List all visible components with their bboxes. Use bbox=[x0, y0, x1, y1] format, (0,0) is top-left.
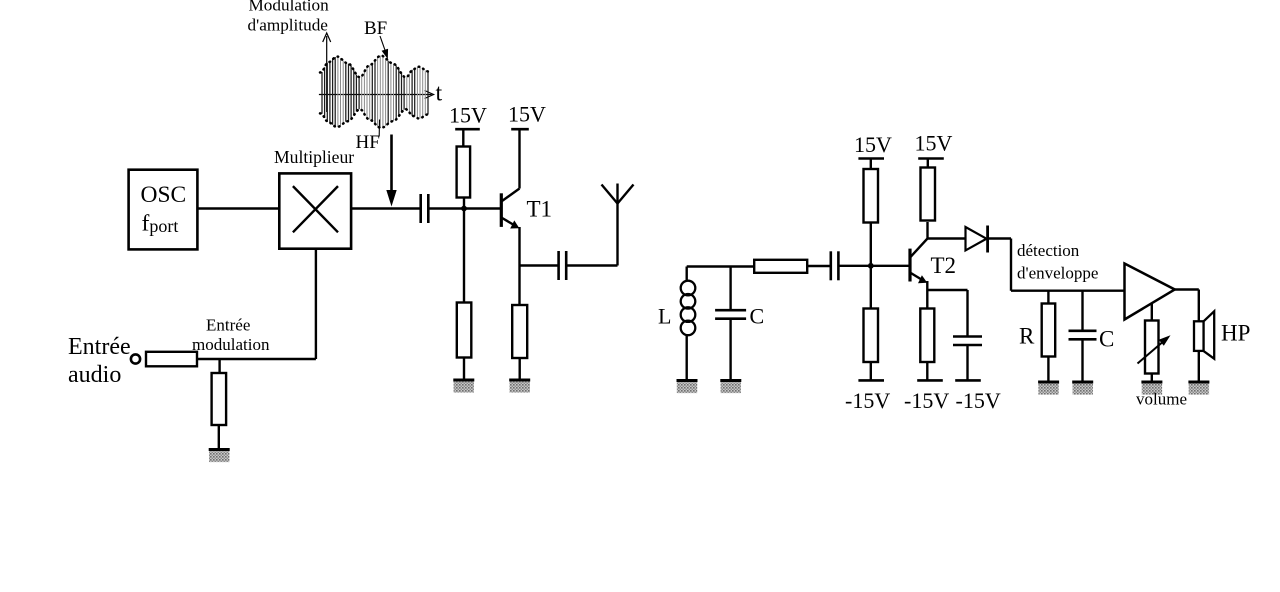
arrow from plot down to wire bbox=[386, 135, 396, 207]
wire input line bbox=[197, 358, 316, 360]
supply -15V T2 bias bbox=[858, 379, 884, 382]
svg-text:-15V: -15V bbox=[956, 388, 1001, 413]
svg-text:volume: volume bbox=[1136, 390, 1187, 409]
wire amp to volume pot bbox=[1151, 304, 1153, 321]
transistor T1 bbox=[501, 131, 519, 266]
wire cap to -15V bbox=[966, 346, 968, 381]
input terminal bbox=[131, 354, 140, 363]
capacitor C coupling T2 bbox=[831, 251, 839, 280]
node base T1 bbox=[461, 206, 467, 212]
resistor R detector bbox=[1042, 304, 1056, 357]
wire HP to ground bbox=[1198, 351, 1200, 382]
svg-text:d'amplitude: d'amplitude bbox=[248, 16, 329, 35]
svg-text:-15V: -15V bbox=[845, 388, 890, 413]
ground under R detector bbox=[1038, 382, 1059, 395]
resistor R shunt input bbox=[212, 373, 227, 425]
op-amp audio amplifier bbox=[1125, 264, 1175, 320]
resistor R series receiver bbox=[754, 260, 807, 273]
capacitor C antenna coupling bbox=[559, 251, 567, 280]
svg-text:15V: 15V bbox=[854, 132, 892, 157]
loudspeaker HP bbox=[1194, 311, 1214, 358]
block OSC fport bbox=[129, 170, 198, 250]
svg-text:15V: 15V bbox=[508, 102, 546, 127]
capacitor C detector bbox=[1069, 331, 1097, 340]
wire collector to diode bbox=[928, 237, 966, 239]
wire resistor to 15V bar bbox=[462, 129, 464, 146]
svg-text:audio: audio bbox=[68, 362, 121, 388]
svg-text:-15V: -15V bbox=[904, 388, 949, 413]
supply +15V T2 bias bbox=[858, 157, 884, 160]
wire emitter to cap bbox=[520, 264, 558, 266]
wire OSC to multiplier bbox=[197, 207, 279, 209]
svg-text:T2: T2 bbox=[931, 253, 957, 278]
wire pot to ground bbox=[1151, 374, 1153, 383]
wire emitter to bypass cap bbox=[927, 289, 967, 291]
resistor R bias T1 upper bbox=[457, 147, 471, 198]
wire cap to ground bbox=[729, 320, 731, 381]
supply -15V T2 emitter bbox=[917, 379, 943, 382]
wire to C bbox=[1081, 291, 1083, 331]
ground under input resistor bbox=[209, 450, 230, 463]
svg-text:15V: 15V bbox=[449, 103, 487, 128]
wire node to base bbox=[871, 265, 909, 267]
svg-text:L: L bbox=[658, 304, 671, 329]
transistor T2 bbox=[910, 222, 928, 309]
svg-text:C: C bbox=[750, 304, 765, 329]
potentiometer arrow bbox=[1138, 335, 1171, 363]
resistor R series input bbox=[146, 352, 197, 367]
antenna bbox=[602, 184, 634, 266]
envelope (dotted) lower bbox=[320, 109, 428, 128]
inductor L bbox=[681, 281, 696, 336]
wire coil to ground bbox=[686, 335, 688, 381]
ground under C detector bbox=[1072, 382, 1093, 395]
ground under bias resistor bbox=[453, 380, 474, 393]
wire resistor to ground bbox=[463, 358, 465, 381]
supply +15V T2 collector bbox=[918, 157, 944, 160]
supply +15V T1 bias bbox=[455, 128, 480, 131]
svg-text:BF: BF bbox=[364, 18, 387, 39]
svg-text:R: R bbox=[1019, 324, 1035, 349]
AM carrier waveform bbox=[322, 57, 428, 127]
ground under L bbox=[677, 381, 698, 394]
svg-text:Multiplieur: Multiplieur bbox=[274, 147, 354, 167]
wire amp output to HP bbox=[1175, 290, 1199, 322]
block multiplier U1 bbox=[279, 173, 351, 248]
wire down to cap bbox=[966, 290, 968, 337]
wire node down bbox=[463, 209, 465, 303]
diode D1 bbox=[966, 226, 988, 253]
resistor R bias T1 lower bbox=[457, 303, 472, 358]
svg-text:modulation: modulation bbox=[192, 335, 270, 354]
svg-text:15V: 15V bbox=[915, 131, 953, 156]
svg-text:Entrée: Entrée bbox=[206, 316, 250, 335]
wire resistor to cap bbox=[807, 265, 830, 267]
svg-text:T1: T1 bbox=[527, 197, 553, 222]
capacitor C coupling T1 bbox=[421, 194, 429, 223]
wire to ground bbox=[1047, 357, 1049, 383]
wire node up bbox=[870, 223, 872, 266]
supply -15V bypass bbox=[955, 379, 981, 382]
wire emitter down bbox=[518, 266, 520, 306]
wire to ground bbox=[519, 358, 521, 380]
svg-text:d'enveloppe: d'enveloppe bbox=[1017, 264, 1098, 283]
wire cap to node bbox=[838, 265, 870, 267]
wire node up bbox=[463, 198, 465, 209]
svg-text:C: C bbox=[1099, 327, 1114, 352]
ground under volume pot bbox=[1141, 382, 1162, 395]
wire to -15V bbox=[926, 362, 928, 380]
wire to coil bbox=[686, 267, 688, 282]
node base T2 bbox=[868, 263, 874, 269]
wire to R bbox=[1047, 291, 1049, 304]
wire to ground bbox=[1081, 340, 1083, 382]
svg-text:Entrée: Entrée bbox=[68, 334, 131, 360]
capacitor C tank bbox=[715, 310, 746, 319]
wire tank top bbox=[687, 265, 755, 267]
wire to 15V bbox=[870, 159, 872, 170]
ground under emitter resistor bbox=[509, 380, 530, 393]
wire cap to antenna bbox=[566, 264, 617, 266]
resistor R bias T2 upper bbox=[864, 169, 879, 223]
wire up to multiplier bbox=[315, 249, 317, 359]
wire to 15V bbox=[927, 159, 929, 168]
wire to ground bbox=[218, 425, 220, 450]
resistor R volume potentiometer bbox=[1145, 321, 1159, 374]
svg-text:Modulation: Modulation bbox=[249, 0, 330, 15]
capacitor C bypass bbox=[953, 337, 982, 346]
vertical axis bbox=[323, 33, 331, 112]
svg-text:HF: HF bbox=[356, 132, 380, 153]
svg-text:t: t bbox=[436, 81, 443, 107]
wire to shunt resistor bbox=[218, 359, 220, 373]
envelope (dotted) upper bbox=[320, 56, 428, 78]
ground under C tank bbox=[720, 381, 741, 394]
ground under HP bbox=[1188, 382, 1209, 395]
horizontal axis t bbox=[319, 91, 434, 99]
resistor R bias T2 lower bbox=[864, 309, 879, 363]
resistor R emitter T1 bbox=[512, 305, 527, 358]
wire node down bbox=[870, 266, 872, 309]
wire to tank cap bbox=[729, 267, 731, 311]
wire multiplier to coupling cap bbox=[351, 207, 420, 209]
wire diode to amplifier bbox=[988, 239, 1125, 291]
wire cap to node/base bbox=[430, 207, 501, 209]
svg-text:détection: détection bbox=[1017, 241, 1080, 260]
resistor R collector T2 bbox=[921, 168, 936, 221]
resistor R emitter T2 bbox=[920, 309, 934, 363]
svg-text:HP: HP bbox=[1221, 321, 1250, 346]
supply +15V T1 collector bbox=[511, 128, 529, 131]
svg-text:OSC: OSC bbox=[141, 182, 187, 208]
wire to -15V bbox=[870, 362, 872, 380]
